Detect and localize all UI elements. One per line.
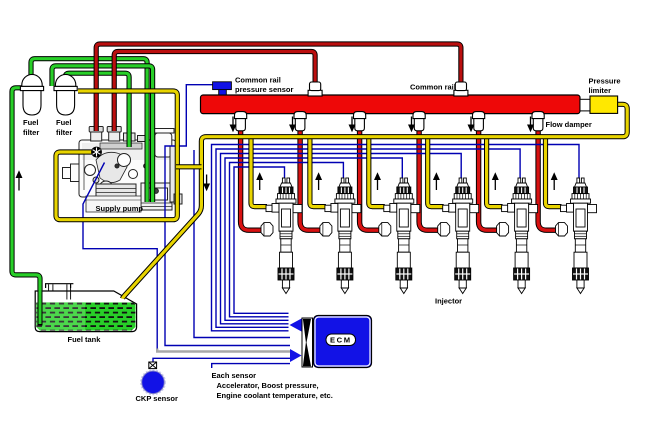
suction pipe inside tank bbox=[38, 290, 43, 326]
svg-text:Injector: Injector bbox=[435, 297, 462, 306]
wire yellow leak-off pipe injector 3 bbox=[369, 135, 385, 207]
svg-text:Flow damper: Flow damper bbox=[546, 120, 592, 129]
svg-text:Fuel: Fuel bbox=[23, 118, 38, 127]
ECM U1 bbox=[314, 316, 372, 368]
wire each sensor to ECM bbox=[212, 364, 290, 368]
svg-text:Accelerator, Boost pressure,: Accelerator, Boost pressure, bbox=[217, 381, 319, 390]
arrow to injectors bbox=[290, 319, 302, 332]
wire ECM to injector 2 bbox=[230, 163, 344, 317]
injector 1 bbox=[261, 178, 302, 294]
flow arrow down flow damper 3 bbox=[349, 117, 354, 132]
supply pump bbox=[63, 127, 183, 213]
fuel tank bbox=[35, 291, 136, 332]
svg-text:Engine coolant temperature, et: Engine coolant temperature, etc. bbox=[217, 391, 333, 400]
flow arrow up injector 1 return bbox=[257, 174, 262, 191]
wire supply pump SCV to ECM bbox=[83, 163, 157, 349]
wire ECM to injector 3 bbox=[225, 158, 402, 320]
flow arrow down flow damper 6 bbox=[528, 117, 533, 132]
wire yellow leak-off pipe injector 2 bbox=[310, 135, 326, 207]
flow arrow up injector 2 return bbox=[316, 174, 321, 191]
wire red high-pressure pipe pump to common rail (rear) bbox=[96, 44, 461, 131]
wire yellow overflow bridge bbox=[176, 164, 202, 169]
wire sensor line to ECM bbox=[194, 150, 290, 338]
rail inlet fitting rear bbox=[454, 82, 468, 96]
wire red high-pressure pipe pump to common rail (front) bbox=[114, 52, 315, 132]
svg-text:Common rail: Common rail bbox=[410, 83, 456, 92]
wire green pipe fuel filter 1 to supply pump bbox=[31, 59, 147, 202]
wire ECM to injector 5 bbox=[216, 149, 520, 327]
flow damper 1 bbox=[235, 112, 247, 131]
flow arrow up injector 6 return bbox=[552, 174, 557, 191]
wire common rail pressure sensor to ECM bbox=[165, 85, 290, 346]
injector 4 bbox=[438, 178, 479, 294]
wire ECM to injector 6 bbox=[212, 145, 580, 331]
wire red injection pipe flow damper 2 to injector 2 bbox=[300, 129, 322, 230]
wire yellow return pipe pressure limiter to fuel tank bbox=[123, 104, 628, 298]
svg-text:ECM: ECM bbox=[330, 335, 352, 344]
wire yellow leak-off pipe injector 6 bbox=[546, 135, 562, 207]
wire green pipe fuel filter 2 to supply pump bbox=[65, 73, 129, 147]
svg-text:Pressure: Pressure bbox=[589, 77, 621, 86]
wire ECM to injector 4 bbox=[221, 154, 462, 324]
flow damper 4 bbox=[413, 112, 425, 131]
svg-text:Fuel: Fuel bbox=[56, 118, 71, 127]
fuel filter 1 bbox=[20, 74, 43, 115]
svg-text:Supply pump: Supply pump bbox=[96, 204, 144, 213]
flow arrow down return line bbox=[204, 175, 209, 191]
flow arrow down flow damper 5 bbox=[468, 117, 473, 132]
flow arrow down flow damper 1 bbox=[230, 117, 235, 132]
svg-text:filter: filter bbox=[56, 128, 72, 137]
rail inlet fitting front bbox=[308, 82, 322, 96]
arrow from sensors bbox=[290, 349, 302, 362]
wire red injection pipe flow damper 1 to injector 1 bbox=[241, 129, 263, 230]
wire red injection pipe flow damper 5 to injector 5 bbox=[479, 129, 499, 230]
CKP sensor connector box bbox=[149, 362, 157, 369]
injector 5 bbox=[497, 178, 538, 294]
CKP sensor bbox=[141, 370, 166, 395]
flow damper 6 bbox=[532, 112, 544, 131]
svg-text:filter: filter bbox=[23, 128, 39, 137]
wire green feed pipe tank to fuel filter 1 bbox=[12, 88, 40, 290]
svg-text:Fuel tank: Fuel tank bbox=[68, 335, 102, 344]
flow arrow down flow damper 4 bbox=[409, 117, 414, 132]
svg-text:limiter: limiter bbox=[589, 86, 612, 95]
ECM connector bbox=[302, 318, 313, 367]
pressure limiter bbox=[590, 96, 618, 113]
fuel tank filler cap bbox=[45, 284, 73, 288]
svg-text:Common rail: Common rail bbox=[235, 76, 281, 85]
flow arrow up feed line bbox=[16, 172, 21, 191]
svg-text:CKP sensor: CKP sensor bbox=[136, 394, 178, 403]
wire CKP sensor to ECM bbox=[153, 358, 290, 361]
wire yellow leak-off pipe injector 5 bbox=[487, 135, 503, 207]
injector 2 bbox=[320, 178, 361, 294]
wire red injection pipe flow damper 6 to injector 6 bbox=[538, 129, 557, 230]
wire red injection pipe flow damper 3 to injector 3 bbox=[360, 129, 381, 230]
fuel filter 2 bbox=[54, 74, 77, 115]
common rail bbox=[201, 95, 581, 114]
injector 6 bbox=[556, 178, 597, 294]
wire supply pump to ECM (gray segment) bbox=[157, 349, 290, 352]
svg-text:pressure sensor: pressure sensor bbox=[235, 85, 293, 94]
wire yellow leak-off pipe injector 4 bbox=[428, 135, 444, 207]
wire yellow leak-off pipe injector 1 bbox=[251, 135, 267, 207]
svg-text:Each sensor: Each sensor bbox=[212, 371, 257, 380]
flow arrow up injector 5 return bbox=[493, 174, 498, 191]
flow arrow up injector 4 return bbox=[434, 174, 439, 191]
flow damper 3 bbox=[354, 112, 366, 131]
wire green pipe supply pump to fuel filter 2 bbox=[52, 66, 153, 202]
flow damper 5 bbox=[473, 112, 485, 131]
flow damper 2 bbox=[294, 112, 306, 131]
common rail pressure sensor bbox=[219, 89, 227, 95]
wire yellow pipe fuel filter 2 around supply pump bbox=[56, 91, 177, 220]
wire ECM to injector 1 bbox=[234, 167, 289, 313]
flow arrow down flow damper 2 bbox=[290, 117, 295, 132]
flow arrow up injector 3 return bbox=[375, 174, 380, 191]
injector 3 bbox=[379, 178, 420, 294]
pump inlet fitting bbox=[91, 147, 102, 158]
wire red injection pipe flow damper 4 to injector 4 bbox=[419, 129, 440, 230]
pressure limiter connector bbox=[580, 99, 590, 111]
